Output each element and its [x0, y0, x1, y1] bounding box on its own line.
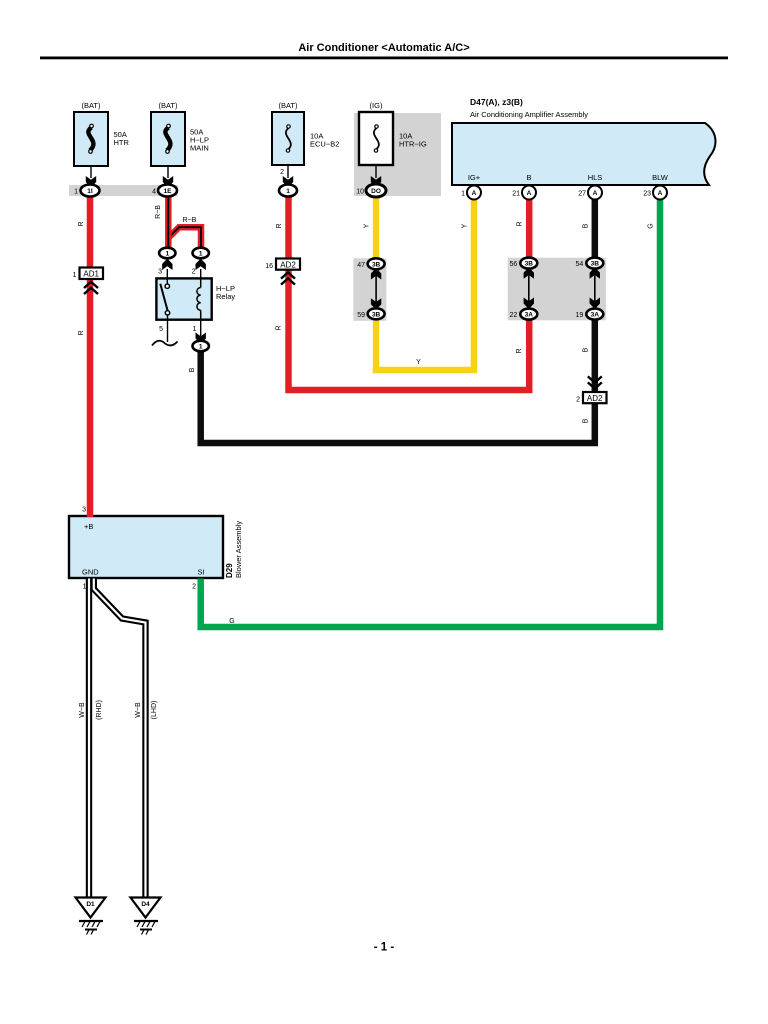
- svg-text:3: 3: [82, 507, 86, 514]
- relay coil: [197, 278, 201, 319]
- relay pin3 connector oval: [158, 248, 175, 279]
- svg-text:R−B: R−B: [155, 205, 162, 219]
- svg-text:W−B: W−B: [79, 702, 86, 718]
- svg-text:AD2: AD2: [587, 394, 603, 403]
- svg-text:B: B: [189, 367, 196, 372]
- svg-text:Relay: Relay: [216, 292, 235, 301]
- wire G amplifier BLW pin to blower SI: [201, 200, 660, 628]
- connector AD1 pin1 on R wire: [73, 268, 103, 295]
- wire R from 1I to blower +B: [87, 197, 94, 518]
- svg-text:54: 54: [576, 261, 584, 268]
- svg-text:59: 59: [357, 312, 365, 319]
- svg-text:1I: 1I: [87, 188, 93, 195]
- svg-text:D4: D4: [141, 901, 150, 908]
- amplifier pin B no.21 connector A: [512, 186, 536, 200]
- svg-text:56: 56: [510, 261, 518, 268]
- svg-text:1: 1: [193, 326, 197, 333]
- connector 3A pin22: [510, 309, 538, 320]
- svg-text:3B: 3B: [591, 261, 600, 268]
- joint arrows between 3B/3A on R wire: [524, 267, 534, 309]
- gray band splice 3B/3B on Y wire: [353, 258, 386, 321]
- svg-text:5: 5: [159, 326, 163, 333]
- svg-text:2: 2: [192, 584, 196, 591]
- connector 1E pin4: [152, 166, 177, 197]
- blower assembly D29 box: [69, 516, 243, 578]
- joint arrows between 3B connectors on Y wire: [371, 268, 381, 310]
- wire W-B left from blower GND to ground D1: [86, 579, 92, 898]
- fuse F2 50A H-LP MAIN box: [151, 101, 209, 166]
- relay pin1 connector oval: [193, 320, 209, 352]
- svg-text:R: R: [516, 348, 523, 353]
- svg-text:R: R: [276, 325, 283, 330]
- ground D1: [76, 898, 106, 935]
- connector 1 pin2 ECU-B2: [279, 165, 297, 197]
- svg-text:A: A: [527, 190, 532, 197]
- svg-text:R: R: [276, 223, 283, 228]
- svg-text:IG+: IG+: [468, 173, 481, 182]
- relay switch contact: [160, 278, 169, 319]
- ground D4: [131, 898, 161, 935]
- connector AD2 pin2 on B wire: [576, 376, 606, 403]
- svg-text:A: A: [472, 190, 477, 197]
- svg-text:HLS: HLS: [588, 173, 603, 182]
- svg-text:MAIN: MAIN: [190, 144, 209, 153]
- fuse F4 10A HTR-IG box: [359, 101, 427, 165]
- svg-text:D1: D1: [86, 901, 95, 908]
- amplifier pin BLW no.23 connector A: [643, 186, 667, 200]
- svg-text:G: G: [648, 223, 655, 228]
- wire R-B vertical from 1E to relay pin3 connector: [165, 197, 172, 249]
- gray band splice 3B/3A on R and B wires: [508, 258, 606, 321]
- wire B from AD2 to H-LP relay pin1 connector: [201, 351, 595, 443]
- svg-text:1E: 1E: [164, 188, 173, 195]
- svg-text:R: R: [78, 330, 85, 335]
- svg-text:Air Conditioning Amplifier Ass: Air Conditioning Amplifier Assembly: [470, 110, 588, 119]
- svg-text:HTR: HTR: [114, 138, 130, 147]
- svg-text:1: 1: [461, 191, 465, 198]
- svg-text:23: 23: [643, 191, 651, 198]
- connector 3B pin59: [357, 308, 384, 319]
- svg-text:1: 1: [199, 344, 203, 351]
- svg-text:3B: 3B: [372, 311, 381, 318]
- svg-text:1: 1: [165, 251, 169, 258]
- relay pin2 connector oval: [192, 248, 209, 279]
- svg-text:27: 27: [578, 191, 586, 198]
- svg-text:10: 10: [356, 189, 364, 196]
- svg-text:B: B: [583, 347, 590, 352]
- svg-text:(LHD): (LHD): [151, 701, 158, 720]
- svg-text:D47(A), z3(B): D47(A), z3(B): [470, 97, 523, 107]
- svg-text:Y: Y: [364, 223, 371, 228]
- svg-text:19: 19: [576, 312, 584, 319]
- svg-text:Y: Y: [462, 223, 469, 228]
- fuse F3 10A ECU-B2 box: [272, 101, 339, 165]
- svg-text:R−B: R−B: [183, 217, 197, 224]
- svg-text:2: 2: [280, 169, 284, 176]
- svg-text:3B: 3B: [372, 261, 381, 268]
- svg-text:2: 2: [576, 397, 580, 404]
- connector 1I pin1: [74, 166, 99, 197]
- connector 3B pin56: [510, 258, 538, 269]
- A/C amplifier U1 D47(A),z3(B) box: [452, 97, 715, 185]
- svg-text:AD2: AD2: [280, 260, 296, 269]
- svg-text:W−B: W−B: [135, 702, 142, 718]
- svg-text:(BAT): (BAT): [158, 101, 178, 110]
- svg-text:(BAT): (BAT): [81, 101, 101, 110]
- svg-text:1: 1: [286, 188, 290, 195]
- svg-text:3A: 3A: [525, 312, 534, 319]
- wire B 3A connector to AD2: [592, 319, 599, 392]
- svg-text:B: B: [583, 223, 590, 228]
- svg-text:Y: Y: [416, 359, 421, 366]
- amplifier pin HLS no.27 connector A: [578, 186, 602, 200]
- svg-text:- 1 -: - 1 -: [374, 942, 395, 954]
- svg-text:1: 1: [83, 584, 87, 591]
- svg-text:1: 1: [73, 272, 77, 279]
- svg-text:1: 1: [199, 251, 203, 258]
- fuse F1 50A HTR box: [74, 101, 129, 166]
- connector 3A pin19: [576, 309, 604, 320]
- svg-text:(RHD): (RHD): [96, 700, 103, 720]
- svg-text:+B: +B: [84, 522, 93, 531]
- connector AD2 pin16 on R wire: [265, 259, 300, 285]
- wire W-B right branch from blower GND to ground D4: [94, 579, 146, 898]
- relay pin5 lead and page-break squiggle: [152, 320, 178, 346]
- svg-text:B: B: [583, 418, 590, 423]
- connector 3B pin47: [357, 258, 384, 269]
- wire R-B branch to relay pin2 connector: [168, 227, 201, 248]
- svg-text:Air Conditioner <Automatic A/C: Air Conditioner <Automatic A/C>: [298, 42, 469, 54]
- svg-text:D29: D29: [225, 563, 234, 578]
- svg-text:DO: DO: [371, 188, 381, 195]
- svg-text:GND: GND: [82, 568, 99, 577]
- svg-text:2: 2: [192, 269, 196, 276]
- svg-text:Blower Assembly: Blower Assembly: [234, 521, 243, 578]
- svg-text:R: R: [78, 221, 85, 226]
- svg-text:SI: SI: [198, 568, 205, 577]
- wire Y from HTR-IG fuse to 3B connector: [373, 197, 380, 259]
- svg-text:3: 3: [158, 269, 162, 276]
- svg-text:AD1: AD1: [83, 270, 99, 279]
- svg-text:1: 1: [74, 189, 78, 196]
- svg-text:ECU−B2: ECU−B2: [310, 140, 339, 149]
- relay K1 H-LP Relay box: [156, 278, 235, 319]
- wire R from ECU-B2 fuse to amplifier B pin: [289, 197, 530, 391]
- joint arrows between 3B/3A on B wire: [590, 267, 600, 309]
- svg-text:G: G: [229, 618, 234, 625]
- title rule: [40, 57, 728, 60]
- svg-text:21: 21: [512, 191, 520, 198]
- svg-text:A: A: [658, 190, 663, 197]
- svg-text:3B: 3B: [525, 261, 534, 268]
- svg-text:(BAT): (BAT): [278, 101, 298, 110]
- svg-text:B: B: [526, 173, 531, 182]
- svg-text:(IG): (IG): [370, 101, 383, 110]
- connector 3B pin54: [576, 258, 604, 269]
- gray junction-block band behind 1I/1E: [69, 185, 178, 196]
- gray junction-block panel behind HTR-IG fuse: [354, 113, 441, 196]
- wire Y lower segment to amplifier IG+ pin: [376, 200, 474, 371]
- svg-text:R: R: [517, 221, 524, 226]
- svg-text:22: 22: [510, 312, 518, 319]
- svg-text:BLW: BLW: [652, 173, 669, 182]
- svg-text:A: A: [593, 190, 598, 197]
- wire B amplifier HLS pin to 3B connector: [592, 200, 599, 259]
- svg-text:16: 16: [265, 263, 273, 270]
- svg-text:4: 4: [152, 189, 156, 196]
- wire R upper segment amplifier B pin to 3B connector: [526, 200, 533, 259]
- connector DO pin10: [356, 165, 386, 197]
- amplifier pin IG+ no.1 connector A: [461, 186, 481, 200]
- svg-text:3A: 3A: [591, 312, 600, 319]
- svg-text:HTR−IG: HTR−IG: [399, 140, 427, 149]
- svg-text:47: 47: [357, 262, 365, 269]
